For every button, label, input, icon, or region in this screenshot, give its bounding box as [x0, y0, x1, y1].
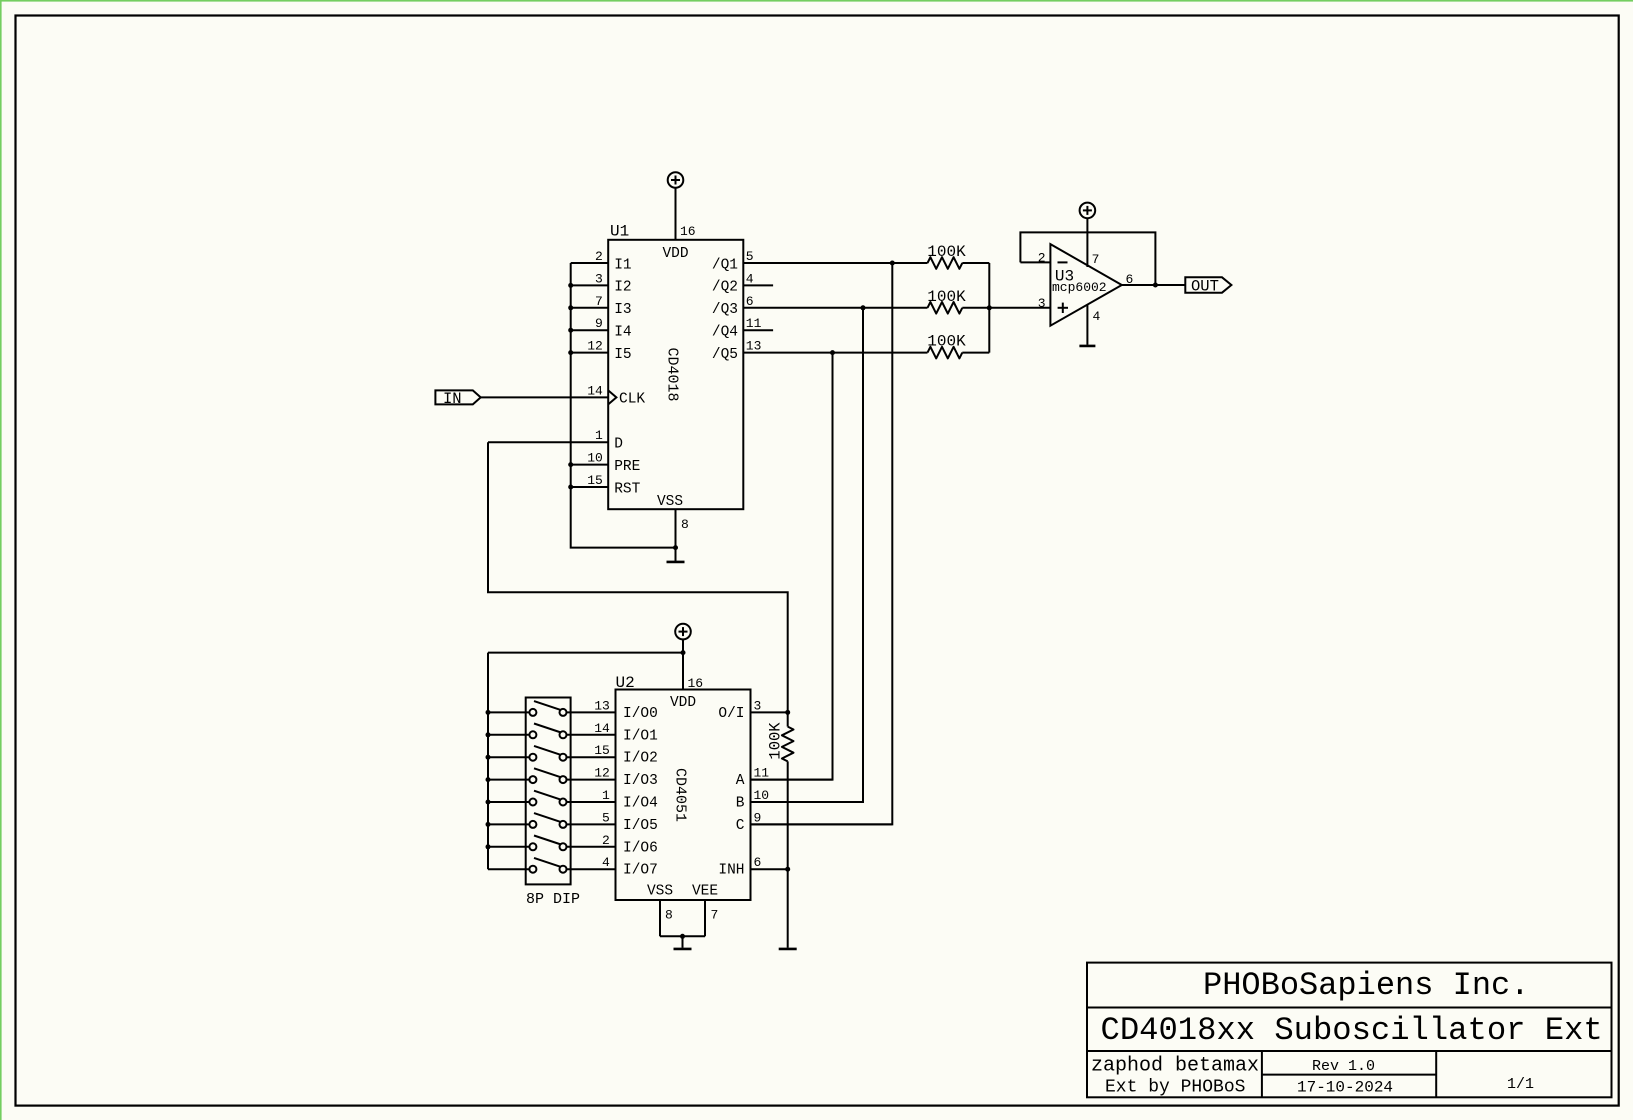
title block outer box — [1087, 963, 1612, 1098]
svg-text:I/O0: I/O0 — [623, 706, 658, 722]
svg-text:CD4018xx Suboscillator Ext: CD4018xx Suboscillator Ext — [1101, 1012, 1603, 1049]
svg-text:2: 2 — [595, 249, 603, 264]
switch row 7 — [529, 843, 536, 850]
svg-text:15: 15 — [594, 743, 610, 758]
svg-text:I/O4: I/O4 — [623, 796, 658, 812]
IC U2 CD4051 body — [616, 690, 751, 901]
svg-text:RST: RST — [614, 481, 640, 497]
pin 2 I1 — [571, 262, 609, 264]
junction O/I node — [785, 710, 790, 715]
svg-text:8P DIP: 8P DIP — [526, 891, 580, 908]
svg-text:11: 11 — [746, 316, 762, 331]
power symbol +V for U2 — [675, 624, 691, 640]
svg-text:C: C — [736, 818, 745, 834]
svg-text:10: 10 — [754, 788, 770, 803]
title block rev/date divider — [1262, 1074, 1436, 1076]
junction op-amp output feedback — [1153, 283, 1158, 288]
op-amp minus marker — [1058, 261, 1068, 263]
svg-text:3: 3 — [754, 698, 762, 713]
svg-text:CLK: CLK — [619, 392, 645, 408]
svg-text:Rev 1.0: Rev 1.0 — [1312, 1058, 1375, 1075]
svg-text:VSS: VSS — [647, 884, 673, 900]
svg-text:U2: U2 — [616, 674, 635, 692]
switch row 5 — [529, 799, 536, 806]
svg-text:12: 12 — [587, 339, 603, 354]
IN flag connector — [435, 390, 480, 404]
svg-text:1: 1 — [595, 428, 603, 443]
ground under op-amp — [1079, 345, 1095, 348]
title block divider 2 — [1087, 1050, 1612, 1052]
svg-text:I/O7: I/O7 — [623, 863, 658, 879]
svg-text:/Q1: /Q1 — [712, 257, 738, 273]
wire left bus I1-RST to VSS — [571, 263, 676, 548]
svg-text:17-10-2024: 17-10-2024 — [1297, 1079, 1393, 1097]
switch row 1 — [529, 709, 536, 716]
svg-text:/Q5: /Q5 — [712, 347, 738, 363]
OUT flag connector — [1185, 277, 1231, 292]
pin 6 output wire — [1122, 284, 1186, 286]
svg-text:5: 5 — [746, 249, 754, 264]
wire C net vertical — [751, 263, 893, 824]
svg-text:IN: IN — [443, 390, 462, 408]
svg-text:8: 8 — [665, 908, 673, 923]
ground under U1 VSS — [675, 548, 677, 561]
pin 11 /Q4 stub — [743, 329, 773, 331]
svg-text:VSS: VSS — [657, 494, 683, 510]
svg-text:zaphod betamax: zaphod betamax — [1091, 1055, 1259, 1078]
svg-text:OUT: OUT — [1191, 278, 1219, 296]
op-amp plus marker — [1058, 307, 1068, 309]
svg-text:PRE: PRE — [614, 459, 640, 475]
pin 10 B stub — [751, 801, 864, 803]
svg-text:14: 14 — [594, 721, 610, 736]
svg-text:A: A — [736, 773, 745, 789]
pin 4 V- stub — [1086, 305, 1088, 345]
wire /Q5 row — [743, 352, 927, 354]
pin 9 I4 — [571, 329, 609, 331]
IC U1 CD4018 body — [608, 240, 743, 509]
ground under U2 — [682, 936, 684, 948]
pin 2 wire inverting input — [1020, 261, 1050, 263]
pin 7 V+ stub — [1086, 218, 1088, 267]
svg-text:6: 6 — [754, 855, 762, 870]
svg-text:12: 12 — [594, 766, 610, 781]
resistor R2 100K — [928, 302, 963, 314]
switch row 3 — [529, 754, 536, 761]
wire /Q1 row — [743, 262, 927, 264]
svg-text:INH: INH — [718, 863, 744, 879]
op-amp U3 triangle — [1050, 244, 1121, 326]
pin 13 I/O0 — [567, 711, 616, 713]
svg-text:8: 8 — [681, 517, 689, 532]
wire /Q3 row — [743, 307, 927, 309]
svg-text:13: 13 — [746, 339, 762, 354]
pin 7 VEE stub U2 — [704, 900, 706, 936]
svg-text:VDD: VDD — [670, 695, 696, 711]
wire B net vertical — [751, 308, 864, 802]
svg-text:Ext by PHOBoS: Ext by PHOBoS — [1105, 1077, 1245, 1097]
svg-text:CD4051: CD4051 — [672, 768, 689, 822]
svg-text:/Q2: /Q2 — [712, 280, 738, 296]
wire D net from U1 pin1 to U2 O/I — [488, 442, 788, 712]
svg-text:16: 16 — [680, 224, 696, 239]
resistor R1 100K — [928, 257, 963, 269]
svg-text:11: 11 — [754, 766, 770, 781]
pin 15 RST — [571, 486, 609, 488]
title block vertical divider 2 — [1435, 1051, 1437, 1097]
junction dots U1 bus — [568, 283, 573, 288]
svg-text:O/I: O/I — [718, 706, 744, 722]
svg-text:5: 5 — [602, 810, 610, 825]
svg-text:6: 6 — [1126, 272, 1134, 287]
pin 4 I/O7 — [567, 868, 616, 870]
junction /Q1-C — [890, 261, 895, 266]
junction U2 ground — [680, 934, 685, 939]
svg-text:B: B — [736, 796, 745, 812]
svg-text:I1: I1 — [614, 257, 631, 273]
pin 4 /Q2 stub — [743, 284, 773, 286]
resistor R4 100K vertical — [787, 712, 789, 726]
wires DIP left commons — [488, 711, 529, 713]
feedback wire pin2 to output — [1020, 232, 1155, 285]
pin 16 VDD stub U2 — [682, 640, 684, 690]
svg-text:PHOBoSapiens Inc.: PHOBoSapiens Inc. — [1203, 967, 1529, 1004]
svg-text:I/O1: I/O1 — [623, 728, 658, 744]
svg-text:100K: 100K — [766, 722, 784, 760]
junction dots DIP bus — [486, 710, 491, 715]
8P DIP switch body SW1 — [526, 698, 571, 885]
svg-text:I4: I4 — [614, 325, 631, 341]
pin 14 CLK — [481, 396, 609, 398]
green screen border left — [0, 0, 2, 1120]
pin 14 I/O1 — [567, 734, 616, 736]
junction VSS U1 — [673, 545, 678, 550]
wire A net vertical — [751, 353, 833, 780]
svg-text:U1: U1 — [610, 223, 629, 241]
svg-text:I/O5: I/O5 — [623, 818, 658, 834]
svg-text:D: D — [614, 437, 623, 453]
pin 1 D — [488, 441, 608, 443]
pin 15 I/O2 — [567, 756, 616, 758]
pin 8 VSS stub — [675, 509, 677, 547]
pin 16 VDD stub — [675, 188, 677, 240]
svg-text:13: 13 — [594, 698, 610, 713]
svg-text:7: 7 — [1092, 252, 1100, 267]
ground under R4/INH bus — [779, 948, 797, 951]
wire DIP common bus vertical — [487, 653, 489, 870]
pin 3 O/I wire — [751, 711, 788, 713]
pin 8 VSS stub U2 — [659, 900, 661, 936]
pin 2 I/O6 — [567, 846, 616, 848]
svg-text:1/1: 1/1 — [1507, 1076, 1534, 1093]
junction resistor bus to op-amp — [987, 305, 992, 310]
svg-text:100K: 100K — [927, 243, 966, 261]
svg-text:100K: 100K — [927, 333, 966, 351]
svg-text:/Q4: /Q4 — [712, 325, 738, 341]
pin 10 PRE — [571, 464, 609, 466]
svg-text:I3: I3 — [614, 302, 631, 318]
svg-text:7: 7 — [711, 908, 719, 923]
svg-text:10: 10 — [587, 451, 603, 466]
svg-text:I5: I5 — [614, 347, 631, 363]
svg-text:9: 9 — [754, 810, 762, 825]
svg-text:3: 3 — [1038, 296, 1046, 311]
svg-text:14: 14 — [587, 383, 603, 398]
switch row 6 — [529, 821, 536, 828]
svg-text:3: 3 — [595, 271, 603, 286]
pin 5 I/O5 — [567, 823, 616, 825]
power symbol +V for U3 — [1080, 203, 1096, 219]
wire VSS-VEE join — [660, 935, 705, 937]
svg-text:4: 4 — [1093, 309, 1101, 324]
svg-text:I/O3: I/O3 — [623, 773, 658, 789]
pin 7 I3 — [571, 307, 609, 309]
svg-text:9: 9 — [595, 316, 603, 331]
svg-text:1: 1 — [602, 788, 610, 803]
svg-text:16: 16 — [688, 676, 704, 691]
svg-text:4: 4 — [602, 855, 610, 870]
svg-text:CD4018: CD4018 — [663, 347, 680, 401]
pin 3 I2 — [571, 284, 609, 286]
pin 12 I/O3 — [567, 779, 616, 781]
switch row 8 — [529, 866, 536, 873]
switch row 2 — [529, 731, 536, 738]
junction /Q3-B — [861, 305, 866, 310]
pin 9 C stub — [751, 823, 893, 825]
pin 12 I5 — [571, 352, 609, 354]
title block vertical divider 1 — [1261, 1051, 1263, 1097]
svg-text:100K: 100K — [927, 288, 966, 306]
svg-text:mcp6002: mcp6002 — [1052, 280, 1107, 295]
svg-text:I2: I2 — [614, 280, 631, 296]
clock wedge U1 — [608, 390, 616, 404]
svg-text:VEE: VEE — [692, 884, 718, 900]
wire resistor right bus — [988, 263, 990, 353]
switch row 4 — [529, 776, 536, 783]
junction U2 VDD — [681, 650, 686, 655]
svg-text:4: 4 — [746, 271, 754, 286]
svg-text:15: 15 — [587, 473, 603, 488]
power symbol +V for U1 — [668, 172, 684, 188]
junction /Q5-A — [830, 350, 835, 355]
svg-text:I/O2: I/O2 — [623, 751, 658, 767]
svg-text:2: 2 — [1038, 250, 1046, 265]
pin 6 INH wire — [751, 868, 788, 870]
junction INH node — [785, 867, 790, 872]
pin 11 A stub — [751, 779, 833, 781]
pin 1 I/O4 — [567, 801, 616, 803]
wire VDD to DIP common bus — [488, 652, 683, 654]
svg-text:I/O6: I/O6 — [623, 840, 658, 856]
svg-text:2: 2 — [602, 833, 610, 848]
green screen border top — [0, 0, 1633, 2]
title block divider 1 — [1087, 1007, 1612, 1009]
svg-text:/Q3: /Q3 — [712, 302, 738, 318]
svg-text:7: 7 — [595, 294, 603, 309]
resistor R3 100K — [928, 347, 963, 359]
svg-text:6: 6 — [746, 294, 754, 309]
svg-text:VDD: VDD — [662, 246, 688, 262]
